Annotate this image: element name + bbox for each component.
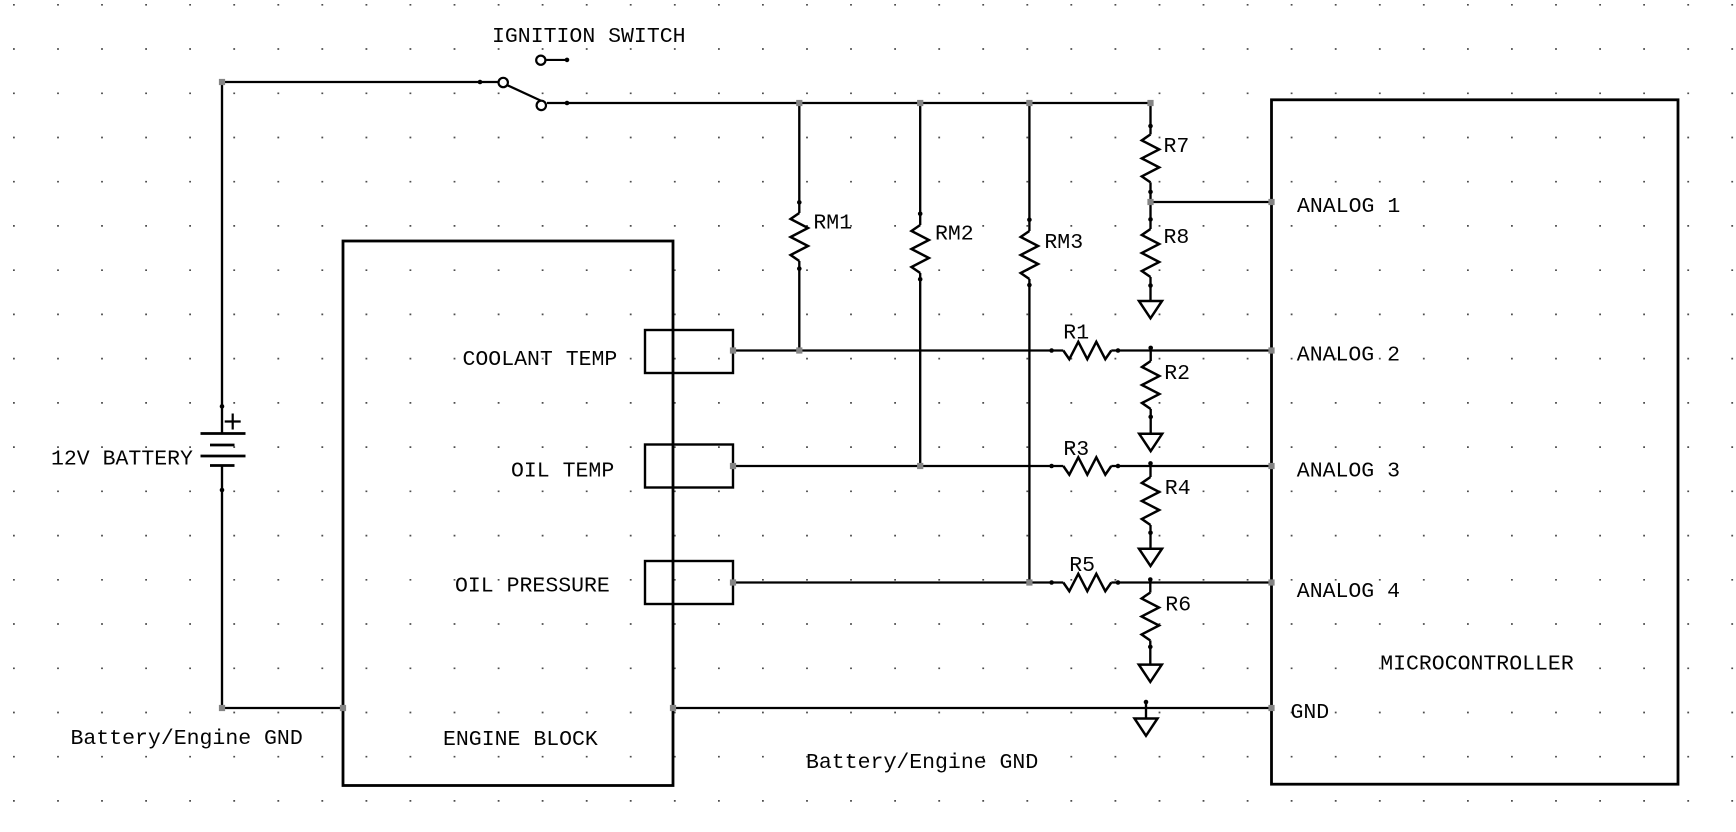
svg-text:RM3: RM3 xyxy=(1044,231,1083,255)
svg-text:12V BATTERY: 12V BATTERY xyxy=(51,447,193,471)
svg-text:R8: R8 xyxy=(1164,226,1190,250)
svg-text:R4: R4 xyxy=(1165,477,1191,501)
svg-text:ANALOG 4: ANALOG 4 xyxy=(1297,580,1400,604)
svg-text:R1: R1 xyxy=(1063,322,1089,346)
svg-text:ENGINE BLOCK: ENGINE BLOCK xyxy=(443,728,598,752)
svg-text:Battery/Engine GND: Battery/Engine GND xyxy=(71,727,303,751)
svg-text:R6: R6 xyxy=(1165,594,1191,618)
svg-text:OIL TEMP: OIL TEMP xyxy=(511,460,614,484)
svg-text:IGNITION SWITCH: IGNITION SWITCH xyxy=(492,25,686,49)
svg-text:R2: R2 xyxy=(1164,362,1190,386)
svg-text:ANALOG 1: ANALOG 1 xyxy=(1297,195,1400,219)
svg-text:MICROCONTROLLER: MICROCONTROLLER xyxy=(1380,653,1574,677)
svg-text:ANALOG 3: ANALOG 3 xyxy=(1297,460,1400,484)
svg-text:R7: R7 xyxy=(1164,135,1190,159)
svg-text:OIL PRESSURE: OIL PRESSURE xyxy=(455,575,610,599)
svg-text:R3: R3 xyxy=(1063,438,1089,462)
svg-text:R5: R5 xyxy=(1069,554,1095,578)
svg-text:RM1: RM1 xyxy=(813,212,852,236)
svg-text:GND: GND xyxy=(1291,701,1330,725)
svg-text:COOLANT TEMP: COOLANT TEMP xyxy=(463,348,618,372)
svg-text:Battery/Engine GND: Battery/Engine GND xyxy=(806,751,1038,775)
svg-text:RM2: RM2 xyxy=(935,223,974,247)
svg-text:ANALOG 2: ANALOG 2 xyxy=(1297,343,1400,367)
